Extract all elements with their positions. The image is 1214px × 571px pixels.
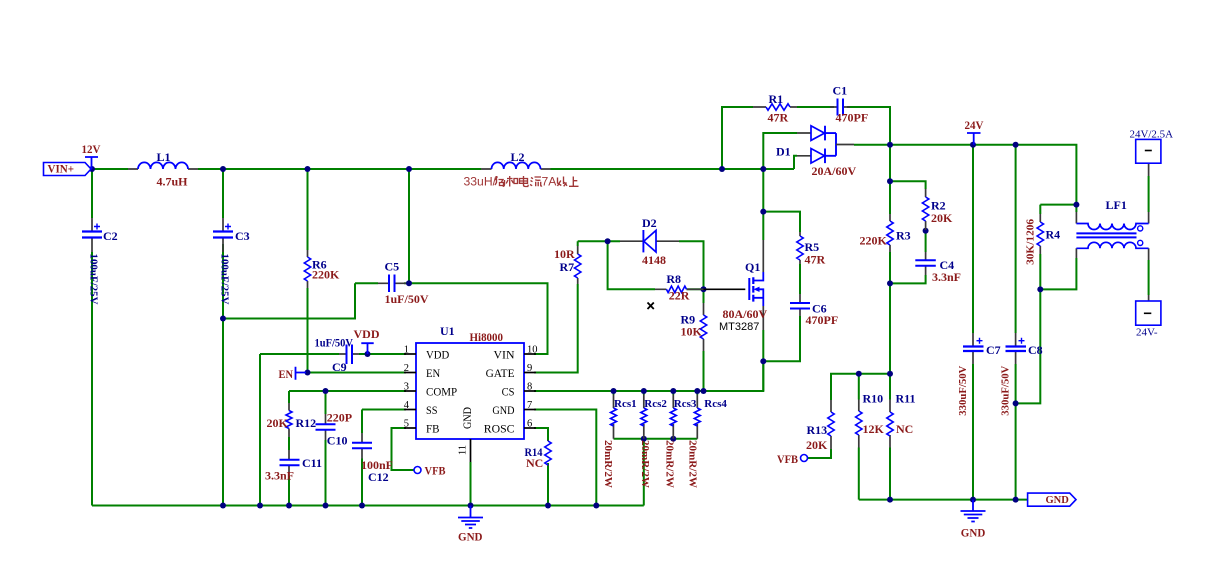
svg-text:VDD: VDD (354, 327, 380, 341)
junction R2 branch top (887, 178, 893, 184)
wire CS rail pin8 y=391 (534, 361, 763, 391)
resistor R1 (753, 92, 797, 124)
capacitor C5 (378, 260, 429, 307)
svg-text:4.7uH: 4.7uH (157, 175, 189, 189)
svg-text:COMP: COMP (426, 385, 457, 399)
junction ground rail C12 (359, 503, 365, 509)
resistor R11 (887, 392, 916, 448)
svg-text:SS: SS (426, 403, 438, 417)
wire C5 node riser x=409 (408, 169, 410, 283)
svg-text:C12: C12 (368, 470, 389, 484)
wire R10 branch x=858.8 (858, 374, 860, 500)
junction R13 R10 R11 (887, 371, 893, 377)
svg-text:20mR/2W: 20mR/2W (602, 440, 614, 488)
svg-text:R13: R13 (807, 423, 828, 437)
resistor R3 (860, 214, 911, 252)
wire ROSC pin6 to R14 (534, 428, 548, 506)
junction C5 riser top (406, 166, 412, 172)
junction R10 top (856, 371, 862, 377)
junction C5 node (406, 280, 412, 286)
resistor R4 (1024, 214, 1060, 265)
resistor Rcs2 (639, 395, 667, 489)
wire FB pin5 to VFB (392, 428, 415, 470)
svg-text:330uF/50V: 330uF/50V (957, 366, 969, 416)
wire GATE pin9 to R7 (534, 241, 578, 372)
svg-text:D1: D1 (776, 145, 791, 159)
no-ERC marker x (648, 303, 654, 310)
svg-text:3.3nF: 3.3nF (265, 468, 294, 482)
svg-text:NC: NC (526, 456, 543, 470)
svg-text:VDD: VDD (426, 348, 450, 362)
svg-text:Q1: Q1 (745, 260, 760, 274)
wire VDD pin1 y=354 (260, 353, 406, 355)
wire C10 branch x=325.5 (325, 391, 327, 506)
U1 pin 5 FB (404, 419, 440, 436)
svg-text:20mR/2W: 20mR/2W (664, 440, 676, 488)
capacitor C9 (315, 335, 360, 374)
svg-text:330uF/50V: 330uF/50V (1000, 366, 1012, 416)
svg-text:Rcs4: Rcs4 (704, 398, 727, 410)
wire C2 branch x=92 (91, 169, 93, 506)
value label 33uH Chinese note (464, 174, 579, 188)
U1 pin 2 EN (404, 363, 441, 380)
wire Q1 drain x=763.3 (762, 169, 764, 240)
junction R9 bottom (701, 388, 707, 394)
svg-text:20A/60V: 20A/60V (812, 164, 857, 178)
wire snubber R5 C6 branch (763, 212, 800, 362)
svg-text:C7: C7 (986, 343, 1001, 357)
svg-text:6: 6 (527, 419, 532, 430)
wire D1 anode bottom step (794, 156, 797, 169)
power port 24V (965, 118, 984, 145)
junction C8 R4 wire (1013, 400, 1019, 406)
U1 pin 10 VIN (494, 345, 538, 362)
junction Rcs3 top (670, 388, 676, 394)
junction D1 cathode C1 (887, 142, 893, 148)
wire COMP pin3 y=391 (289, 390, 406, 392)
wire R8 row y=289.3 (608, 241, 704, 289)
ground symbol left (458, 506, 483, 544)
resistor R6 (304, 250, 340, 288)
resistor R13 (806, 400, 834, 452)
wire right ground rail y=499.6 (859, 499, 1028, 501)
svg-text:R1: R1 (769, 92, 784, 106)
wire C8 to R4 bottom y=403.4 (1016, 289, 1041, 403)
wire LF1 top winding terminals (1076, 176, 1148, 212)
svg-text:R3: R3 (896, 228, 911, 242)
svg-text:L1: L1 (157, 150, 171, 164)
capacitor C12 (352, 433, 393, 484)
diode D2 (620, 216, 679, 267)
U1 pin 4 SS (404, 400, 438, 417)
wire main rail right of L2 (551, 168, 795, 170)
svg-text:Rcs3: Rcs3 (674, 398, 697, 410)
svg-text:470PF: 470PF (806, 313, 839, 327)
resistor R9 (681, 303, 707, 351)
connector 24V- (1136, 295, 1161, 338)
svg-text:20mR/2W: 20mR/2W (687, 440, 699, 488)
junction C3 top (220, 166, 226, 172)
junction right rail GND sym (970, 497, 976, 503)
junction Q1 drain snubber (760, 209, 766, 215)
junction C10 COMP (323, 388, 329, 394)
wire R6 branch x=307.5 (307, 169, 309, 373)
junction ground rail pin11 (468, 503, 474, 509)
junction R6 top (305, 166, 311, 172)
U1 pin 7 GND (492, 400, 536, 417)
junction Rcs3 bottom (670, 436, 676, 442)
svg-text:100uF/25V: 100uF/25V (219, 254, 231, 305)
junction R8 R9 gate (701, 286, 707, 292)
wire C7 branch x=973 (972, 145, 974, 500)
svg-text:1uF/50V: 1uF/50V (315, 335, 354, 349)
resistor Rcs1 (602, 395, 637, 489)
svg-text:470PF: 470PF (836, 111, 869, 125)
junction ground rail pin7 (593, 503, 599, 509)
svg-text:10: 10 (527, 345, 538, 356)
junction ground rail C3 (220, 503, 226, 509)
svg-text:VIN: VIN (494, 348, 515, 362)
resistor R2 (922, 189, 953, 230)
inductor L2 (481, 150, 551, 169)
svg-text:R8: R8 (666, 272, 681, 286)
svg-text:C11: C11 (302, 456, 322, 470)
svg-text:MT3287: MT3287 (719, 321, 759, 333)
svg-text:C3: C3 (235, 229, 250, 243)
svg-text:9: 9 (527, 363, 532, 374)
svg-text:33uH/: 33uH/ (464, 174, 497, 188)
svg-text:VIN+: VIN+ (48, 162, 75, 176)
wire EN pin2 y=372.5 (306, 372, 406, 374)
wire R4 branch x=1040.3 (1040, 205, 1076, 290)
svg-text:FB: FB (426, 422, 440, 436)
svg-text:12V: 12V (82, 142, 101, 156)
svg-text:2: 2 (404, 363, 409, 374)
svg-text:Rcs1: Rcs1 (614, 398, 637, 410)
op-amp U1 Hi8000 IC body (416, 324, 524, 439)
U1 pin 8 CS (502, 382, 536, 399)
port VFB right (777, 452, 808, 466)
junction R1 branch (719, 166, 725, 172)
ground symbol right (961, 500, 986, 540)
svg-text:C2: C2 (103, 229, 118, 243)
wire R1 C1 row y=107 (722, 107, 890, 169)
junction 24V stub (970, 142, 976, 148)
junction R2 C4 mid (923, 228, 929, 234)
svg-text:7: 7 (527, 400, 532, 411)
junction Rcs4 top (694, 388, 700, 394)
wire C12 branch x=362 (361, 410, 363, 506)
svg-text:3.3nF: 3.3nF (932, 270, 961, 284)
wire R3 R11 column x=890 (889, 145, 891, 500)
U1 pin 1 VDD (404, 345, 450, 362)
svg-text:Hi8000: Hi8000 (470, 330, 504, 344)
junction D2 anode (605, 238, 611, 244)
junction ground rail C11 (286, 503, 292, 509)
wire Rcs bottom tie y=438.8 (614, 439, 698, 506)
svg-text:Rcs2: Rcs2 (644, 398, 667, 410)
capacitor C2 electrolytic (82, 218, 118, 305)
wire VFB R13 branch (808, 374, 890, 458)
svg-text:1: 1 (404, 345, 409, 356)
junction C8 top (1013, 142, 1019, 148)
resistor R7 (554, 246, 581, 284)
junction ground rail C10 (323, 503, 329, 509)
U1 pin 9 GATE (486, 363, 536, 380)
svg-text:EN: EN (426, 366, 440, 380)
svg-text:R12: R12 (296, 416, 317, 430)
wire R9 branch x=703.5 (703, 289, 705, 391)
resistor R12 (267, 403, 317, 437)
wire main 12V rail left of L1 (88, 168, 128, 170)
wire C3 to C5 y=318.5 (223, 283, 355, 318)
svg-text:C1: C1 (833, 83, 848, 97)
svg-text:C10: C10 (327, 433, 348, 447)
junction Q1 source snubber (760, 358, 766, 364)
svg-text:47R: 47R (768, 111, 789, 125)
junction ground rail C9 drop (257, 503, 263, 509)
junction VDD stub (365, 351, 371, 357)
wire C8 branch x=1015.6 (1015, 145, 1017, 500)
svg-text:VFB: VFB (425, 464, 446, 478)
wire R2 C4 branch x=925.6 (890, 181, 926, 283)
junction LF1 top R4 (1073, 202, 1079, 208)
inductor L1 (128, 150, 198, 189)
svg-text:C5: C5 (385, 260, 400, 274)
wire C3 branch x=223 (222, 169, 224, 506)
wire 24V rail y=144.7 (890, 145, 1076, 205)
svg-text:24V-: 24V- (1136, 326, 1158, 338)
svg-text:8: 8 (527, 382, 532, 393)
junction D1 Q1 node (760, 166, 766, 172)
wire C9 ground drop x=260 (259, 354, 261, 506)
wire R12 C11 branch x=289 (288, 391, 290, 506)
svg-text:4: 4 (404, 400, 410, 411)
svg-text:4148: 4148 (642, 253, 666, 267)
svg-text:20K: 20K (931, 211, 953, 225)
resistor R14 (525, 440, 552, 470)
svg-text:220K: 220K (312, 268, 340, 282)
resistor Rcs3 (664, 395, 697, 489)
svg-text:CS: CS (502, 385, 515, 399)
wire D1 cathode to 24V rail (854, 144, 890, 146)
junction VIN+ 12V C2 (89, 166, 95, 172)
svg-text:L2: L2 (511, 150, 525, 164)
svg-text:100uF/25V: 100uF/25V (88, 254, 100, 305)
svg-text:GND: GND (492, 403, 514, 417)
wire pin7 ground y=409.5 (534, 410, 596, 506)
svg-text:R11: R11 (896, 392, 916, 406)
svg-text:80A/60V: 80A/60V (723, 307, 768, 321)
junction R6 EN (305, 370, 311, 376)
wire main rail L1 to L2 (198, 168, 481, 170)
svg-text:R4: R4 (1046, 228, 1061, 242)
connector 24V/2.5A (1130, 128, 1174, 176)
transistor Q1 MOSFET (704, 240, 768, 333)
svg-text:GND: GND (458, 530, 483, 544)
junction right rail R11 (887, 497, 893, 503)
svg-text:NC: NC (896, 422, 913, 436)
junction C3 C5 wire (220, 316, 226, 322)
svg-text:220K: 220K (860, 234, 888, 248)
svg-text:20K: 20K (267, 416, 289, 430)
svg-text:C8: C8 (1028, 343, 1043, 357)
connector flag GND (1028, 493, 1076, 506)
svg-text:C9: C9 (332, 360, 347, 374)
capacitor C4 (915, 252, 961, 284)
net label EN (279, 367, 307, 381)
svg-text:30K/1206: 30K/1206 (1024, 218, 1036, 265)
svg-text:220P: 220P (327, 411, 352, 425)
junction ground rail R14 (545, 503, 551, 509)
svg-text:20K: 20K (806, 438, 828, 452)
svg-text:10K: 10K (681, 325, 703, 339)
svg-text:7A: 7A (542, 174, 558, 188)
svg-text:GND: GND (1046, 495, 1070, 506)
junction LF1 bottom R4 (1037, 286, 1043, 292)
svg-text:R10: R10 (863, 392, 884, 406)
wire pin11 ground x=470.5 (470, 462, 472, 506)
svg-text:D2: D2 (642, 216, 657, 230)
svg-text:24V: 24V (965, 118, 984, 132)
svg-text:1uF/50V: 1uF/50V (385, 292, 429, 306)
capacitor C8 electrolytic (1000, 333, 1043, 416)
junction C4 bottom (887, 280, 893, 286)
svg-text:11: 11 (458, 445, 469, 455)
power port VDD (354, 327, 380, 354)
wire D1 anode top (763, 133, 797, 169)
capacitor C6 (790, 294, 838, 327)
wire bottom ground rail y=505.5 (92, 505, 644, 507)
U1 pin 11 GND bottom (458, 407, 475, 462)
capacitor C7 electrolytic (957, 333, 1001, 416)
junction Rcs1 top (611, 388, 617, 394)
wire C5 horizontal y=283.3 (355, 283, 548, 354)
wire SS pin4 y=409.5 (362, 409, 406, 411)
junction Rcs2 top (641, 388, 647, 394)
svg-text:3: 3 (404, 382, 409, 393)
svg-text:LF1: LF1 (1106, 198, 1127, 212)
connector VIN+ (44, 162, 92, 176)
resistor R5 (797, 232, 826, 267)
svg-text:22R: 22R (669, 289, 690, 303)
wire Q1 source x=763.3 (762, 330, 764, 391)
wire D2 top y=240.5 (578, 241, 704, 289)
resistor R8 (655, 272, 704, 303)
capacitor C1 (830, 83, 868, 124)
svg-text:EN: EN (279, 367, 294, 381)
U1 pin 6 ROSC (484, 419, 536, 436)
capacitor C10 (316, 411, 353, 448)
svg-text:5: 5 (404, 419, 409, 430)
U1 pin 3 COMP (404, 382, 458, 399)
port VFB left (414, 464, 446, 478)
svg-text:VFB: VFB (777, 452, 798, 466)
svg-text:GND: GND (961, 526, 986, 540)
power port 12V (82, 142, 101, 169)
wire LF1 bottom winding terminals (1040, 258, 1148, 295)
capacitor C3 electrolytic (213, 218, 250, 305)
svg-text:R7: R7 (560, 260, 575, 274)
diode D1 dual common cathode (776, 126, 857, 178)
transformer LF1 common mode choke (1076, 198, 1148, 260)
resistor R10 (856, 392, 885, 448)
svg-text:GND: GND (460, 407, 474, 429)
capacitor C11 (265, 450, 322, 482)
svg-text:47R: 47R (805, 253, 826, 267)
junction right rail C8 (1013, 497, 1019, 503)
svg-text:12K: 12K (863, 422, 885, 436)
svg-text:U1: U1 (440, 324, 455, 338)
svg-text:GATE: GATE (486, 366, 515, 380)
resistor Rcs4 (687, 395, 728, 489)
wire Rcs top stubs (614, 391, 698, 395)
junction Rcs2 bottom (641, 436, 647, 442)
svg-text:20mR/2W: 20mR/2W (639, 440, 651, 488)
svg-text:ROSC: ROSC (484, 422, 515, 436)
svg-text:24V/2.5A: 24V/2.5A (1130, 128, 1174, 140)
